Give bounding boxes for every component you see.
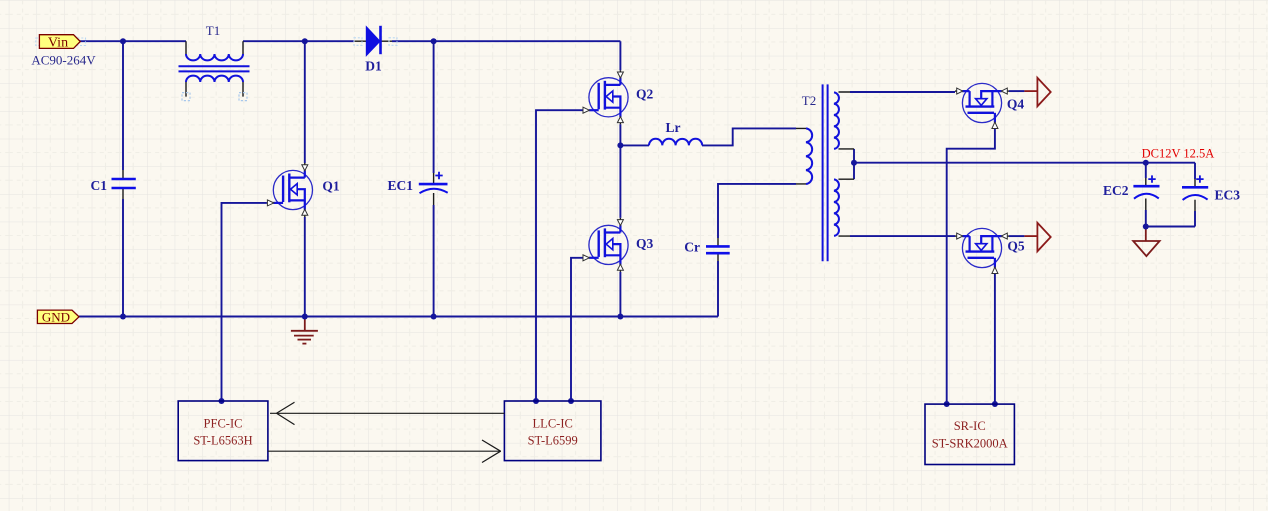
- transistor Q2: [583, 70, 629, 124]
- wire C1 branch: [122, 41, 124, 316]
- svg-text:ST-L6563H: ST-L6563H: [193, 434, 252, 448]
- svg-text:D1: D1: [365, 59, 382, 74]
- svg-text:GND: GND: [42, 310, 70, 325]
- node gnd rail: EC1: [431, 314, 437, 320]
- svg-text:Lr: Lr: [666, 120, 681, 135]
- transistor Q3: [583, 218, 629, 272]
- node output: EC2 tap: [1143, 160, 1149, 166]
- wire Q4 gate to SR-IC: [947, 129, 995, 404]
- port Vin: [36, 35, 86, 51]
- node LLC-IC pin 2: [568, 398, 574, 404]
- node gnd rail: Q3 source: [617, 314, 623, 320]
- T2 secondary top winding: [834, 92, 839, 149]
- wire Q2 gate to LLC-IC: [536, 110, 583, 401]
- node output: EC2 bottom: [1143, 224, 1149, 230]
- svg-text:T1: T1: [206, 23, 220, 38]
- capacitor C1: [91, 178, 136, 193]
- transformer T1: [179, 23, 250, 101]
- node gnd rail: C1: [120, 314, 126, 320]
- wire output rail: [854, 163, 1195, 179]
- node PFC-IC pin: [219, 398, 225, 404]
- svg-text:Vin: Vin: [48, 35, 68, 50]
- wire GND rail: [79, 316, 718, 318]
- transistor Q1: [267, 163, 313, 217]
- svg-text:PFC-IC: PFC-IC: [204, 417, 243, 431]
- wire Lr node to coil: [620, 144, 649, 146]
- port arrow output Q4: [1024, 78, 1050, 107]
- wire T1 leads: [186, 41, 243, 96]
- IC U3 SR-IC ST-SRK2000A box: [925, 404, 1014, 464]
- wire T2 primary leads: [796, 128, 806, 184]
- svg-text:SR-IC: SR-IC: [954, 419, 986, 433]
- wire Cr leads: [717, 238, 719, 261]
- svg-text:Q2: Q2: [636, 87, 654, 102]
- svg-text:Q4: Q4: [1007, 97, 1025, 112]
- wire Q4 output: [1009, 90, 1024, 92]
- wire EC2 leads: [1145, 178, 1147, 210]
- svg-text:LLC-IC: LLC-IC: [533, 417, 573, 431]
- wire EC3 leads: [1194, 179, 1196, 211]
- svg-text:EC1: EC1: [387, 178, 413, 193]
- node gnd rail: Q1 source: [302, 314, 308, 320]
- wire Q3 gate to LLC-IC: [571, 258, 583, 401]
- ground (PFC, bar style): [291, 317, 318, 344]
- node AC top: Q1 drain tap: [302, 38, 308, 44]
- wire T2 secondary top to Q4: [850, 91, 955, 93]
- node T2 center tap: [851, 160, 857, 166]
- wire Q5 gate to SR-IC: [994, 274, 996, 404]
- transistor Q5: [955, 228, 1009, 274]
- wire EC1 leads: [433, 173, 435, 205]
- wire T2 center tap: [853, 149, 855, 179]
- svg-text:EC2: EC2: [1103, 183, 1129, 198]
- capacitor EC1: [387, 172, 447, 193]
- capacitor EC2: [1103, 175, 1160, 198]
- svg-text:EC3: EC3: [1215, 188, 1241, 203]
- transistor Q4: [955, 83, 1009, 129]
- wire T2 primary bottom to Cr: [718, 184, 796, 317]
- svg-text:AC90-264V: AC90-264V: [31, 53, 96, 68]
- diode D1: [354, 26, 397, 74]
- IC U1 PFC-IC ST-L6563H box: [178, 401, 268, 461]
- svg-text:C1: C1: [91, 178, 108, 193]
- wire EC2 branch: [1145, 163, 1147, 227]
- port arrow output Q5: [1024, 223, 1050, 252]
- ground (output, triangle style): [1133, 227, 1159, 257]
- wire T2 secondary bottom to Q5: [850, 235, 955, 237]
- port GND: [37, 310, 79, 325]
- node half-bridge mid: [617, 142, 623, 148]
- IC U2 LLC-IC ST-L6599 box: [504, 401, 601, 461]
- wire half-bridge mid node: [619, 124, 621, 218]
- black pin stubs: [123, 41, 1195, 261]
- capacitor EC3: [1182, 175, 1240, 202]
- wire Lr to T2 primary top: [702, 128, 796, 145]
- wire EC1 branch: [433, 41, 435, 316]
- wire Q1 gate to PFC-IC: [222, 203, 267, 401]
- svg-text:Q1: Q1: [322, 179, 340, 194]
- node SR-IC pin 2: [992, 401, 998, 407]
- wire Q1 source to gnd rail: [304, 217, 306, 317]
- wire EC3 bottom: [1146, 211, 1195, 227]
- svg-text:Q3: Q3: [636, 236, 654, 251]
- node AC top: C1 tap: [120, 38, 126, 44]
- T2 secondary bottom winding: [834, 179, 839, 236]
- node LLC-IC pin 1: [533, 398, 539, 404]
- capacitor Cr: [684, 240, 729, 255]
- svg-text:ST-SRK2000A: ST-SRK2000A: [932, 437, 1008, 451]
- wire feedforward arrow PFC to LLC: [268, 440, 501, 463]
- wire C1 leads: [122, 170, 124, 199]
- svg-text:ST-L6599: ST-L6599: [528, 434, 578, 448]
- wire top AC rail: [79, 41, 620, 70]
- transformer T2: [802, 84, 839, 261]
- wire D1 leads: [354, 40, 392, 42]
- wire Q3 source to gnd rail: [619, 272, 621, 317]
- T2 primary winding: [806, 128, 812, 184]
- svg-text:DC12V 12.5A: DC12V 12.5A: [1142, 147, 1215, 161]
- wire T2 secondary leads: [839, 92, 855, 236]
- inductor Lr: [649, 120, 702, 145]
- wire Q1 drain: [304, 41, 306, 163]
- wire Q5 output: [1009, 235, 1024, 237]
- svg-text:Cr: Cr: [684, 240, 700, 255]
- node SR-IC pin 1: [944, 401, 950, 407]
- svg-text:Q5: Q5: [1007, 239, 1025, 254]
- node AC top: EC1 tap: [431, 38, 437, 44]
- svg-text:T2: T2: [802, 93, 816, 108]
- wire feedback arrow LLC to PFC: [270, 402, 504, 424]
